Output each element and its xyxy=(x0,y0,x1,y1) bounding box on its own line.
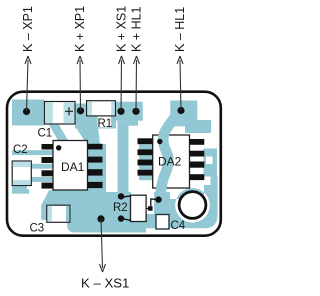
wire stub DA2 pin2 xyxy=(139,155,153,159)
copper pour K+XS1/K+HL1 pedestal xyxy=(116,102,143,126)
svg-text:C1: C1 xyxy=(38,128,53,140)
component C4 xyxy=(156,215,169,230)
pad dot K+XS1 xyxy=(117,108,124,115)
svg-text:C2: C2 xyxy=(13,144,28,156)
svg-text:K + HL1: K + HL1 xyxy=(130,6,144,52)
DA2 pin1 dot xyxy=(157,139,162,144)
copper pour K-HL1 pad xyxy=(170,101,211,134)
wire arrow K+XP1 xyxy=(77,56,83,111)
wire trace DA1 bottom to C3 xyxy=(41,190,95,207)
copper column right of DA1 to bottom pour xyxy=(88,144,106,209)
copper strip at R2 right node xyxy=(154,192,170,228)
wire trace stem to bottom xyxy=(118,121,129,200)
component R1 xyxy=(87,101,116,116)
pad dot K-XS1 xyxy=(97,215,104,222)
svg-text:K – XP1: K – XP1 xyxy=(21,6,35,52)
wire trace C1 left pad down to DA1 xyxy=(49,125,69,141)
wire stub DA2 pin4 xyxy=(139,176,153,181)
svg-text:R1: R1 xyxy=(98,118,113,130)
white notch for R1 label xyxy=(98,116,111,127)
R2 lead bottom xyxy=(122,219,131,221)
svg-text:K – XS1: K – XS1 xyxy=(81,276,129,291)
copper pad K-XP1 corner pour xyxy=(12,100,45,126)
wire arrow K+HL1 xyxy=(134,56,140,111)
DA1 pins left xyxy=(42,144,54,189)
wire trace C2 bottom strip xyxy=(12,184,27,191)
wire trace K+XP1 pour down to DA1 pin8 xyxy=(76,127,101,145)
svg-text:DA1: DA1 xyxy=(61,160,85,174)
pad dot K-XP1 xyxy=(23,108,30,115)
wire arrow K-XP1 xyxy=(25,56,31,112)
hole for LED HL1 xyxy=(179,192,206,219)
svg-text:C3: C3 xyxy=(30,223,45,235)
component C3 xyxy=(41,205,70,222)
svg-text:K + XS1: K + XS1 xyxy=(115,6,129,52)
copper pour around hole HL1 xyxy=(154,176,217,228)
pad dot K-HL1 xyxy=(177,107,184,114)
copper node K+XP1 pour under R1 xyxy=(75,104,116,129)
IC DA2 xyxy=(138,117,205,206)
component R2 xyxy=(122,195,159,221)
node R2 top-left xyxy=(118,193,124,199)
copper pad area under C1 xyxy=(45,102,76,125)
DA1 pin1 dot xyxy=(56,145,61,150)
wire stub DA2 pin1 xyxy=(139,144,153,149)
wire finger C2 to DA1 pin3 xyxy=(12,177,53,182)
wire arrow K+XS1 xyxy=(119,56,125,111)
copper bar right of DA2 xyxy=(204,149,218,191)
wire finger C2 to DA1 pin4 xyxy=(12,189,29,194)
copper bottom pour (K-XS1) xyxy=(67,207,146,233)
svg-text:K + XP1: K + XP1 xyxy=(73,6,87,52)
DA1 pins right xyxy=(88,144,103,188)
copper pour under R2 xyxy=(92,192,131,233)
white hole in right copper bar xyxy=(206,157,213,165)
IC DA1 xyxy=(42,141,103,191)
wire arrow K-HL1 xyxy=(177,56,183,111)
copper connector below C4 xyxy=(146,214,158,228)
solder square R2 right xyxy=(148,206,153,210)
component C1 xyxy=(45,102,76,125)
component C2 xyxy=(12,161,31,186)
svg-text:C4: C4 xyxy=(171,220,186,232)
R2 lead top xyxy=(122,196,131,197)
DA2 pins right xyxy=(190,139,205,180)
copper pad area under R1 xyxy=(87,101,116,116)
svg-text:DA2: DA2 xyxy=(158,155,182,169)
wire stub DA2 pin3 xyxy=(139,166,153,170)
pad dot K+XP1 xyxy=(77,107,84,114)
R2 lead right xyxy=(146,199,159,209)
node R2 bottom-left xyxy=(118,215,124,221)
pad dot K+HL1 xyxy=(132,108,139,115)
wire arrow K-XS1 xyxy=(100,219,106,272)
DA2 pins left xyxy=(138,138,153,175)
svg-text:K – HL1: K – HL1 xyxy=(173,7,187,52)
wire finger C2 to DA1 pin2 xyxy=(12,164,53,169)
wire trace over DA2 xyxy=(161,117,176,206)
wire finger C2 to DA1 pin1 xyxy=(12,150,53,155)
svg-text:R2: R2 xyxy=(113,202,128,214)
node R2 right xyxy=(155,196,161,202)
board outline xyxy=(7,92,221,236)
